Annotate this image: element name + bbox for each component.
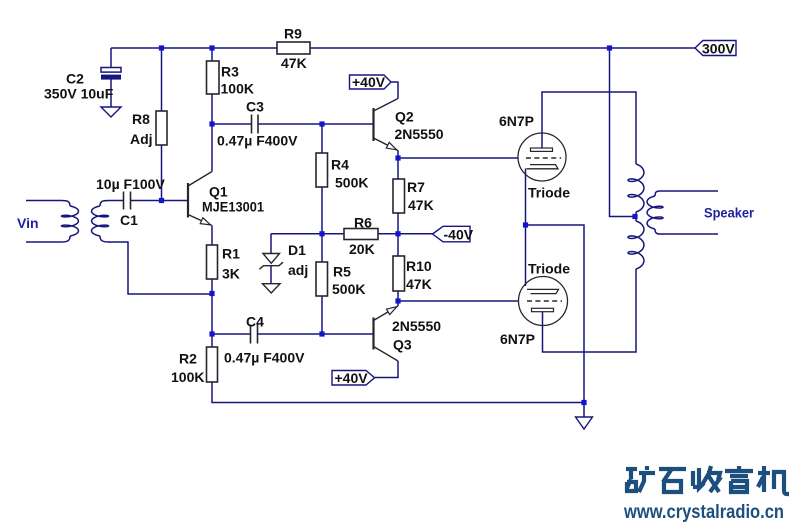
- wire triode U1 grid: [398, 157, 518, 159]
- wire R7 to R10: [397, 213, 399, 256]
- svg-text:Adj: Adj: [130, 131, 153, 147]
- wire Q2 collector to +40V: [391, 82, 398, 99]
- diode D1: [263, 254, 280, 264]
- ground under C2: [101, 107, 121, 117]
- wire R1 bottom to R2 top: [211, 279, 213, 347]
- node A: [159, 45, 164, 50]
- svg-text:C4: C4: [246, 314, 264, 330]
- wire C4 right: [258, 333, 323, 335]
- svg-text:500K: 500K: [332, 281, 365, 297]
- wire C4 left: [212, 333, 251, 335]
- wire Q2 base: [322, 123, 374, 125]
- wire speaker bottom lead: [660, 233, 718, 235]
- wire D1 bottom lead: [270, 266, 272, 284]
- wire bottom rail: [212, 382, 584, 403]
- wire triode U2 anode to transformer: [543, 269, 637, 352]
- transformer T1 input primary winding: [61, 201, 70, 207]
- wire R5 bottom lead: [321, 296, 323, 334]
- transformer T2 output primary lower winding: [628, 221, 644, 269]
- wire R4 to R5: [321, 187, 323, 262]
- wire input top-left terminal: [26, 200, 61, 202]
- svg-text:47K: 47K: [281, 55, 307, 71]
- transistor Q3: [372, 318, 374, 350]
- wire secondary to C1: [109, 200, 124, 202]
- svg-text:6N7P: 6N7P: [499, 113, 534, 129]
- svg-text:10µ F100V: 10µ F100V: [96, 176, 165, 192]
- watermark logo: [626, 466, 789, 494]
- svg-text:R1: R1: [222, 246, 240, 262]
- transformer T1 input secondary winding: [100, 201, 109, 207]
- ground main: [583, 403, 585, 418]
- node L: [319, 331, 324, 336]
- svg-text:100K: 100K: [221, 81, 254, 97]
- node D: [209, 121, 214, 126]
- svg-text:R8: R8: [132, 111, 150, 127]
- svg-text:Triode: Triode: [528, 261, 570, 277]
- wire cathode bus to ground: [526, 225, 585, 403]
- wire D1 branch horizontal: [271, 233, 322, 235]
- wire triode U1 anode to transformer: [542, 92, 636, 164]
- svg-text:0.47µ F400V: 0.47µ F400V: [217, 133, 298, 149]
- node I: [395, 231, 400, 236]
- node C: [607, 45, 612, 50]
- svg-text:2N5550: 2N5550: [392, 318, 441, 334]
- svg-text:R10: R10: [406, 258, 432, 274]
- svg-text:3K: 3K: [222, 266, 240, 282]
- svg-text:6N7P: 6N7P: [500, 331, 535, 347]
- wire Q3 emitter lead: [397, 301, 399, 306]
- node G: [395, 155, 400, 160]
- wire R10 bottom lead: [397, 291, 399, 301]
- wire C2 bottom lead: [110, 80, 112, 108]
- wire R4 top lead: [321, 124, 323, 153]
- resistor R7: [393, 179, 405, 213]
- wire R3 top lead: [211, 48, 213, 61]
- node O: [632, 214, 637, 219]
- wire R3 to node: [211, 94, 213, 124]
- resistor R4: [316, 153, 328, 187]
- power flag +40V upper: [350, 75, 392, 89]
- transformer T2 output primary upper winding: [628, 164, 644, 212]
- wire C3 right: [258, 123, 322, 125]
- svg-text:-40V: -40V: [444, 226, 474, 242]
- wire R6 left: [322, 233, 344, 235]
- svg-text:300V: 300V: [702, 41, 735, 57]
- transistor Q2: [372, 108, 374, 141]
- wire D1 top lead: [270, 234, 272, 253]
- transformer T2 output secondary winding: [655, 191, 660, 196]
- wire R6 right to -40V: [378, 233, 433, 235]
- svg-text:R6: R6: [354, 215, 372, 231]
- svg-text:www.crystalradio.cn: www.crystalradio.cn: [623, 502, 784, 523]
- wire Q1 base: [162, 200, 189, 202]
- wire input bottom-left terminal: [26, 241, 61, 243]
- wire top 300V rail: [111, 47, 695, 49]
- svg-text:adj: adj: [288, 262, 308, 278]
- wire Q2 emitter lead: [397, 151, 399, 180]
- capacitor C1: [124, 192, 131, 210]
- node N: [523, 222, 528, 227]
- wire Q3 collector to +40V: [375, 361, 399, 378]
- power flag +40V lower: [332, 371, 375, 386]
- resistor R6: [344, 229, 378, 240]
- wire R8 top lead: [161, 48, 163, 111]
- svg-text:20K: 20K: [349, 241, 375, 257]
- node F: [159, 198, 164, 203]
- capacitor C3: [252, 115, 259, 134]
- node H: [319, 231, 324, 236]
- power flag 300V: [695, 41, 736, 56]
- triode U2 6N7P lower: [519, 277, 568, 326]
- svg-text:+40V: +40V: [352, 74, 386, 90]
- wire feedback from input secondary: [108, 242, 212, 294]
- svg-text:MJE13001: MJE13001: [202, 199, 264, 215]
- svg-text:R2: R2: [179, 351, 197, 367]
- resistor R10: [393, 256, 405, 291]
- svg-text:2N5550: 2N5550: [395, 126, 444, 142]
- node E: [319, 121, 324, 126]
- svg-text:R4: R4: [331, 157, 349, 173]
- wire C3 left: [212, 123, 252, 125]
- triode U1 6N7P upper: [518, 133, 566, 181]
- wire 300V to center tap: [610, 48, 633, 217]
- resistor R5: [316, 262, 328, 296]
- resistor R8: [156, 111, 167, 145]
- svg-text:C1: C1: [120, 212, 138, 228]
- svg-text:0.47µ F400V: 0.47µ F400V: [224, 350, 305, 366]
- wire R8 bottom lead: [161, 145, 163, 201]
- svg-text:500K: 500K: [335, 175, 368, 191]
- svg-text:Vin: Vin: [17, 215, 39, 231]
- node M: [395, 298, 400, 303]
- node K: [209, 331, 214, 336]
- capacitor C2: [101, 68, 121, 73]
- wire Q1 emitter lead: [211, 226, 213, 246]
- transistor Q1: [187, 183, 189, 218]
- svg-text:+40V: +40V: [335, 370, 369, 386]
- svg-text:R5: R5: [333, 264, 351, 280]
- wire C1 to base node: [131, 200, 162, 202]
- capacitor C4: [251, 325, 258, 344]
- svg-text:47K: 47K: [406, 276, 432, 292]
- svg-text:100K: 100K: [171, 369, 204, 385]
- svg-text:R3: R3: [221, 64, 239, 80]
- wire C2 top lead: [110, 48, 112, 68]
- power flag -40V: [433, 226, 471, 242]
- svg-text:Speaker: Speaker: [704, 205, 755, 221]
- wire primary center tap segment: [635, 212, 637, 221]
- node J: [209, 291, 214, 296]
- resistor R1: [207, 245, 218, 279]
- wire cathodes join vertical: [525, 169, 527, 287]
- svg-text:R9: R9: [284, 26, 302, 42]
- arrow under D1: [263, 284, 281, 293]
- resistor R2: [207, 347, 218, 382]
- svg-text:R7: R7: [407, 179, 425, 195]
- resistor R3: [207, 61, 220, 94]
- wire Q3 base: [322, 333, 374, 335]
- svg-text:Q1: Q1: [209, 184, 228, 200]
- svg-text:Q3: Q3: [393, 337, 412, 353]
- wire Q1 collector lead: [211, 124, 213, 172]
- svg-text:D1: D1: [288, 242, 306, 258]
- svg-text:47K: 47K: [408, 197, 434, 213]
- svg-text:Q2: Q2: [395, 109, 414, 125]
- svg-text:350V 10uF: 350V 10uF: [44, 86, 114, 102]
- node P: [581, 400, 586, 405]
- svg-text:C2: C2: [66, 71, 84, 87]
- wire speaker top lead: [660, 190, 718, 192]
- resistor R9: [277, 42, 310, 54]
- node B: [209, 45, 214, 50]
- svg-text:C3: C3: [246, 99, 264, 115]
- wire triode U2 grid: [398, 300, 519, 302]
- svg-text:Triode: Triode: [528, 185, 570, 201]
